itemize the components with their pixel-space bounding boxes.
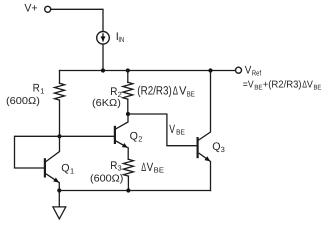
svg-text:=V: =V — [243, 80, 254, 91]
resistor R2 — [123, 82, 133, 99]
ground — [58, 191, 60, 207]
wire Q1 feedback loop — [15, 136, 60, 168]
wire Q3 collector — [199, 71, 211, 141]
wire R3 bottom lead — [127, 176, 129, 190]
wire node to Q3 base — [128, 114, 197, 146]
node junction Q1 emitter/ground — [57, 188, 61, 192]
transistor Q3 — [197, 137, 199, 158]
node junction R1/Q1 collector/Q2 base — [57, 134, 61, 138]
svg-text:BE: BE — [176, 128, 185, 137]
svg-text:(6KΩ): (6KΩ) — [92, 98, 121, 109]
svg-text:Ref: Ref — [252, 69, 262, 78]
wire Q2 collector — [116, 114, 128, 129]
wire V+ to current source — [51, 9, 103, 31]
svg-text:(600Ω): (600Ω) — [6, 96, 40, 107]
svg-text:(600Ω): (600Ω) — [90, 174, 123, 185]
svg-text:BE: BE — [154, 166, 164, 175]
svg-text:1: 1 — [70, 167, 74, 176]
wire Q3 emitter — [199, 153, 210, 161]
resistor R3 — [123, 159, 133, 176]
svg-text:Δ: Δ — [141, 160, 146, 174]
svg-text:BE: BE — [187, 89, 195, 98]
svg-text:V+: V+ — [24, 3, 37, 15]
svg-text:2: 2 — [138, 135, 142, 144]
wire Q1 collector — [46, 136, 60, 161]
svg-text:Δ: Δ — [173, 84, 178, 98]
node junction R3/bottom rail — [126, 188, 130, 192]
wire Q2 emitter — [116, 141, 128, 148]
svg-text:BE: BE — [254, 84, 263, 91]
resistor R1 — [55, 83, 65, 100]
svg-text:3: 3 — [221, 145, 225, 154]
node junction IIN/rail — [101, 68, 105, 72]
svg-text:(R2/R3): (R2/R3) — [137, 84, 172, 98]
svg-text:IN: IN — [118, 35, 124, 44]
node junction R2/Q2 collector — [126, 112, 130, 116]
wire current source to rail — [102, 44, 104, 70]
wire R2 top lead — [127, 71, 129, 83]
node junction Q3 collector/rail — [208, 68, 212, 72]
svg-text:R: R — [33, 83, 40, 95]
svg-text:BE: BE — [314, 84, 322, 91]
wire bottom rail — [59, 190, 210, 192]
wire top rail — [60, 70, 236, 72]
svg-text:R: R — [110, 86, 117, 98]
node VRef terminal — [236, 67, 242, 73]
wire R1 top lead — [59, 71, 61, 84]
svg-text:+(R2/R3): +(R2/R3) — [263, 80, 302, 91]
wire node to Q2 base — [60, 135, 114, 137]
svg-text:V: V — [307, 80, 313, 91]
wire R1 bottom lead — [59, 100, 61, 136]
svg-text:3: 3 — [118, 164, 122, 173]
wire Q1 emitter — [46, 174, 59, 183]
node junction R2/rail — [126, 68, 130, 72]
svg-text:Q: Q — [130, 131, 139, 143]
svg-text:V: V — [179, 84, 186, 98]
svg-text:V: V — [245, 64, 252, 76]
transistor Q1 — [44, 158, 46, 177]
svg-text:R: R — [110, 160, 117, 172]
svg-text:V: V — [147, 160, 154, 174]
current source IIN — [97, 32, 110, 45]
transistor Q2 — [114, 126, 116, 144]
svg-text:1: 1 — [40, 87, 44, 96]
wire R2 bottom lead — [127, 99, 129, 114]
node V+ terminal — [45, 6, 51, 12]
svg-text:V: V — [169, 122, 175, 136]
svg-text:Q: Q — [61, 163, 70, 175]
